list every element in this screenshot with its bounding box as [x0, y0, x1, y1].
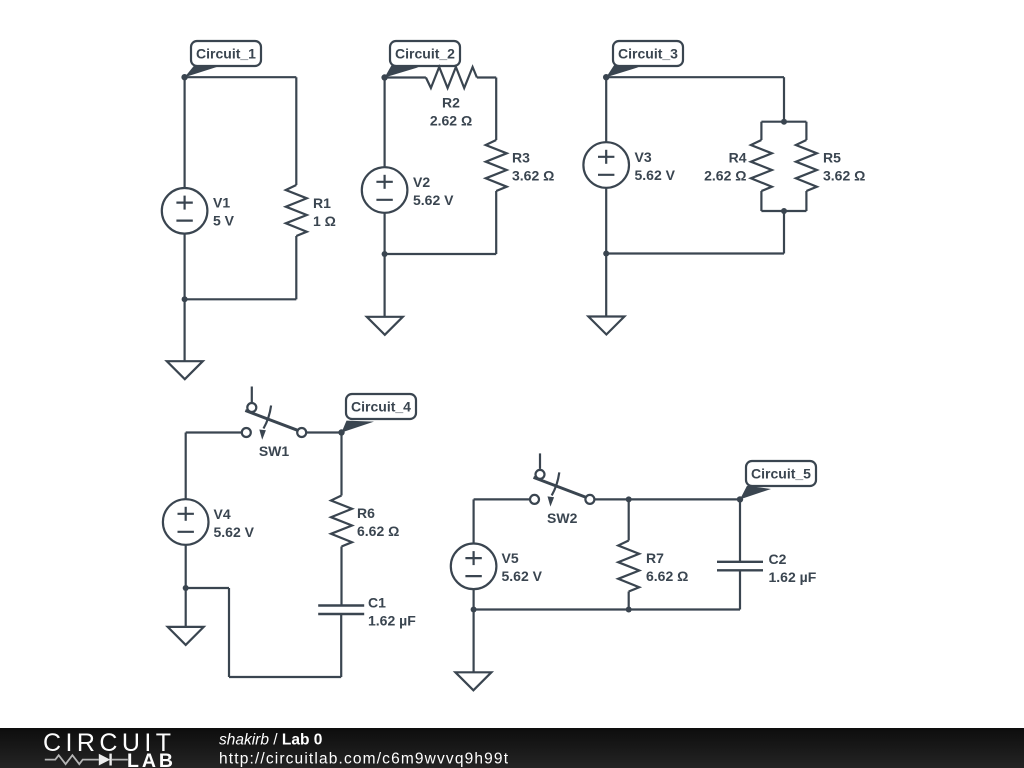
wire [628, 592, 630, 610]
svg-text:2.62 Ω: 2.62 Ω [704, 168, 746, 184]
ground [455, 672, 491, 690]
wire [739, 499, 741, 561]
svg-text:C1: C1 [368, 595, 386, 611]
wire [761, 121, 806, 123]
svg-text:3.62 Ω: 3.62 Ω [512, 168, 554, 184]
ground [367, 317, 403, 335]
svg-text:R4: R4 [729, 150, 747, 166]
svg-text:1 Ω: 1 Ω [313, 213, 336, 229]
wire [185, 76, 297, 78]
svg-text:LAB: LAB [127, 750, 173, 768]
wire [184, 299, 186, 361]
wire [473, 499, 475, 543]
voltage source V2 [362, 167, 454, 213]
svg-text:V5: V5 [502, 550, 519, 566]
svg-text:R2: R2 [442, 95, 460, 111]
svg-text:Circuit_1: Circuit_1 [196, 46, 256, 62]
wire [385, 253, 497, 255]
ground [588, 317, 624, 335]
svg-text:2.62 Ω: 2.62 Ω [430, 113, 472, 129]
logo resistor-diode wire art [45, 754, 128, 766]
svg-text:R1: R1 [313, 195, 331, 211]
resistor R7 [618, 541, 639, 592]
ground [167, 361, 203, 379]
junction [626, 496, 632, 502]
resistor R1 [286, 185, 307, 236]
resistor R3 [486, 140, 507, 191]
junction [182, 296, 188, 302]
svg-text:R6: R6 [357, 505, 375, 521]
wire [739, 570, 741, 609]
svg-text:SW1: SW1 [259, 443, 290, 459]
svg-text:R3: R3 [512, 150, 530, 166]
wire [594, 498, 628, 500]
wire [760, 122, 762, 140]
node Circuit_3 flag [603, 41, 683, 80]
CircuitLab logo text [43, 729, 173, 768]
wire [340, 614, 342, 677]
wire [340, 547, 342, 606]
wire [384, 213, 386, 254]
svg-text:shakirb / Lab 0: shakirb / Lab 0 [219, 732, 322, 749]
junction [471, 607, 477, 613]
label R3 value [512, 150, 554, 184]
wire [783, 77, 785, 122]
label R1 value [313, 195, 336, 229]
wire [184, 234, 186, 300]
svg-text:V1: V1 [213, 195, 230, 211]
wire [805, 191, 807, 211]
svg-text:1.62 µF: 1.62 µF [769, 569, 817, 585]
wire [606, 252, 784, 254]
wire [474, 498, 530, 500]
svg-text:SW2: SW2 [547, 510, 578, 526]
wire [605, 254, 607, 317]
wire [385, 76, 426, 78]
capacitor C1 [318, 595, 416, 629]
svg-text:V4: V4 [214, 506, 231, 522]
wire [606, 76, 784, 78]
wire [186, 587, 229, 589]
capacitor C2 [717, 551, 817, 585]
label R7 value [646, 550, 688, 584]
svg-text:6.62 Ω: 6.62 Ω [646, 568, 688, 584]
node Circuit_4 flag [338, 394, 416, 436]
wire [629, 498, 740, 500]
label R2 value [430, 95, 472, 129]
voltage source V5 [451, 544, 543, 590]
wire [605, 77, 607, 142]
wire [473, 610, 475, 673]
wire [185, 588, 187, 627]
resistor R4 [751, 140, 772, 191]
wire [184, 77, 186, 188]
wire [228, 588, 230, 677]
switch SW1 [242, 387, 306, 460]
junction [781, 119, 787, 125]
node Circuit_2 flag [381, 41, 460, 81]
svg-text:V2: V2 [413, 174, 430, 190]
svg-text:Circuit_5: Circuit_5 [751, 466, 811, 482]
node Circuit_5 flag [737, 461, 816, 503]
ground [168, 627, 204, 645]
wire [783, 211, 785, 254]
junction [603, 251, 609, 257]
junction [382, 251, 388, 257]
wire [760, 191, 762, 211]
svg-text:1.62 µF: 1.62 µF [368, 613, 416, 629]
svg-text:5.62 V: 5.62 V [413, 192, 454, 208]
wire [185, 545, 187, 588]
voltage source V1 [162, 188, 235, 234]
node Circuit_1 flag [181, 41, 261, 80]
svg-text:5.62 V: 5.62 V [635, 167, 676, 183]
junction [626, 607, 632, 613]
junction [183, 585, 189, 591]
svg-text:R5: R5 [823, 150, 841, 166]
wire [306, 431, 341, 433]
wire [805, 122, 807, 140]
label R5 value [823, 150, 865, 184]
switch SW2 [530, 453, 594, 526]
voltage source V3 [583, 142, 675, 188]
wire [185, 433, 187, 500]
wire [605, 188, 607, 254]
svg-text:3.62 Ω: 3.62 Ω [823, 168, 865, 184]
svg-text:V3: V3 [635, 149, 652, 165]
wire [477, 76, 496, 78]
wire [495, 78, 497, 141]
svg-text:http://circuitlab.com/c6m9wvvq: http://circuitlab.com/c6m9wvvq9h99t [219, 751, 509, 768]
wire [474, 608, 740, 610]
svg-text:C2: C2 [769, 551, 787, 567]
wire [295, 236, 297, 299]
wire [384, 254, 386, 317]
wire [495, 191, 497, 254]
junction [781, 208, 787, 214]
footer title text [219, 732, 509, 768]
wire [185, 298, 297, 300]
wire [473, 589, 475, 609]
wire [186, 431, 242, 433]
svg-text:Circuit_3: Circuit_3 [618, 46, 678, 62]
voltage source V4 [163, 499, 255, 545]
label R6 value [357, 505, 399, 539]
wire [340, 433, 342, 496]
resistor R2 [426, 67, 477, 88]
wire [628, 499, 630, 540]
svg-text:5.62 V: 5.62 V [214, 524, 255, 540]
resistor R6 [331, 496, 352, 547]
svg-text:Circuit_4: Circuit_4 [351, 399, 411, 415]
wire [384, 78, 386, 168]
wire [761, 210, 806, 212]
svg-text:Circuit_2: Circuit_2 [395, 46, 455, 62]
svg-text:6.62 Ω: 6.62 Ω [357, 523, 399, 539]
wire [295, 77, 297, 185]
label R4 value [704, 150, 747, 184]
svg-text:5 V: 5 V [213, 213, 235, 229]
svg-text:5.62 V: 5.62 V [502, 568, 543, 584]
wire [229, 676, 341, 678]
resistor R5 [796, 140, 817, 191]
svg-text:R7: R7 [646, 550, 664, 566]
